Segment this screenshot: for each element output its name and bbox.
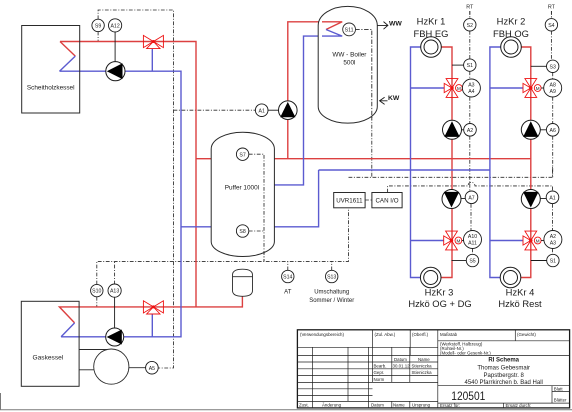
svg-text:Puffer 1000l: Puffer 1000l — [225, 185, 259, 192]
wire S14 stub — [287, 261, 289, 270]
svg-text:S10: S10 — [92, 289, 101, 295]
tank WW-Boiler — [318, 6, 377, 123]
svg-text:(Gewicht): (Gewicht) — [517, 332, 536, 337]
svg-text:HzKr 1: HzKr 1 — [417, 16, 446, 27]
svg-text:Stieniczka: Stieniczka — [412, 370, 433, 375]
wire red circuit 1+3 riser — [441, 47, 452, 278]
svg-text:Gaskessel: Gaskessel — [33, 354, 64, 361]
wire branch to A1 — [174, 109, 256, 111]
wire horizontal 1 UVR to column2 — [349, 166, 553, 177]
svg-text:FBH EG: FBH EG — [414, 28, 449, 39]
svg-text:(Zul. Abw.): (Zul. Abw.) — [375, 332, 396, 337]
wire blue valve branch hzkr4 — [490, 240, 523, 242]
arrow KW — [380, 97, 388, 104]
controller UVR1611 box — [334, 193, 365, 208]
wire S11 line into controller — [355, 29, 372, 177]
frame bottom line — [0, 409, 572, 411]
svg-text:Umschaltung: Umschaltung — [314, 290, 349, 296]
actuator A2 A3 — [544, 231, 562, 249]
svg-text:S4: S4 — [548, 23, 554, 29]
svg-text:(Modell- oder Gesenk-Nr.): (Modell- oder Gesenk-Nr.) — [440, 350, 491, 355]
svg-text:A13: A13 — [110, 289, 119, 295]
svg-text:Zust.: Zust. — [299, 402, 309, 407]
svg-text:A1: A1 — [549, 195, 555, 201]
svg-text:Ursprung: Ursprung — [412, 402, 431, 407]
svg-text:30.01.12: 30.01.12 — [393, 363, 411, 368]
radiator HzKr2 — [501, 37, 522, 58]
svg-text:AT: AT — [284, 290, 292, 296]
actuator A13 — [114, 297, 116, 328]
svg-text:Blatt: Blatt — [554, 386, 564, 391]
wire RT stubs — [470, 11, 552, 19]
svg-text:Änderung: Änderung — [322, 402, 342, 407]
svg-text:Ersatz für:: Ersatz für: — [440, 403, 460, 408]
svg-text:S7: S7 — [239, 152, 245, 158]
svg-text:A10: A10 — [468, 234, 477, 240]
wire blue valve branch hzkr1 — [411, 87, 445, 89]
svg-text:WW - Boiler: WW - Boiler — [332, 52, 367, 59]
wire blue return header — [319, 169, 490, 171]
wire blue circuit 2+4 drop — [490, 47, 501, 278]
sensor S11 — [343, 23, 356, 36]
svg-text:Scheitholzkessel: Scheitholzkessel — [27, 85, 75, 92]
svg-text:RT: RT — [548, 5, 556, 11]
pump HzKr1 (up) — [443, 120, 464, 139]
svg-text:M: M — [536, 239, 540, 244]
circuit 4 column: A1 A2/A3 S1 — [546, 191, 559, 204]
svg-text:A12: A12 — [110, 24, 119, 30]
pipe red network — [59, 22, 531, 323]
sensor S14 — [282, 270, 294, 282]
svg-text:A7: A7 — [468, 195, 474, 201]
svg-text:A1: A1 — [259, 108, 265, 114]
boiler Gaskessel box — [21, 301, 79, 386]
wire red to puffer left — [196, 158, 211, 160]
svg-text:Hzkö Rest: Hzkö Rest — [498, 298, 542, 309]
svg-text:A9: A9 — [550, 89, 556, 95]
wire horizontal 2 CAN to A1 with hop — [388, 182, 553, 192]
actuator A2 — [464, 124, 477, 137]
pump scheitholzkessel (right) — [106, 62, 125, 81]
svg-text:Norm: Norm — [374, 377, 385, 382]
wire S9 stub down — [97, 32, 99, 42]
pump HzKr3 (down) — [442, 190, 465, 209]
wire blue WW boiler return — [274, 30, 342, 185]
sensor S3 — [531, 65, 547, 67]
wire blue valve branch hzkr3 — [411, 240, 445, 242]
valve mixing HzKr4 with motor M — [523, 231, 544, 250]
svg-text:A3: A3 — [468, 83, 474, 89]
wire blue puffer left inlet — [181, 226, 211, 228]
actuator A5 burner — [146, 361, 159, 374]
titleblock — [297, 330, 569, 408]
wire blue valve branch hzkr2 — [490, 87, 523, 89]
wire blue gaskessel HX diagonal — [61, 323, 75, 337]
frame left bottom stub — [0, 393, 2, 410]
svg-text:Name: Name — [418, 357, 430, 362]
wire red expansion vessel stub — [196, 296, 242, 307]
wire blue circuits return to puffer — [274, 170, 318, 227]
wire main bus y=261.4 — [97, 193, 349, 285]
wire WW HX inside tank (redrawn over tank) — [322, 22, 342, 30]
svg-text:(Verwendungsbereich): (Verwendungsbereich) — [300, 332, 344, 337]
svg-text:120501: 120501 — [451, 391, 485, 403]
svg-text:RI Schema: RI Schema — [488, 357, 519, 363]
sensor S1 hzkr1 — [452, 64, 464, 66]
svg-text:500l: 500l — [343, 60, 355, 67]
valve mixing scheitholzkessel — [143, 35, 163, 48]
svg-text:Stieniczka: Stieniczka — [412, 363, 433, 368]
wire top bus S9 to controller drop — [98, 10, 173, 368]
wire red scheitholz supply + main vertical — [60, 42, 196, 307]
burner of Gaskessel — [79, 349, 146, 384]
valve mixing HzKr1 with motor M — [444, 79, 464, 98]
wire puffer sensor dashes inside tank — [249, 154, 264, 261]
sensor S10 — [91, 284, 103, 296]
svg-text:A2: A2 — [467, 128, 473, 134]
valve mixing HzKr3 with motor M — [444, 231, 464, 250]
svg-text:S11: S11 — [345, 28, 354, 34]
wire UVR-CAN link — [365, 199, 372, 201]
valve mixing gaskessel — [143, 301, 163, 314]
svg-text:WW: WW — [389, 20, 402, 27]
pipe blue network — [60, 30, 523, 337]
svg-text:Datum: Datum — [371, 402, 384, 407]
actuator A12 — [114, 32, 116, 62]
wire sensor column 1 top — [470, 11, 473, 254]
svg-text:A4: A4 — [468, 89, 474, 95]
svg-text:Hzkö OG + DG: Hzkö OG + DG — [408, 298, 471, 309]
svg-text:4540 Pfarrkirchen b. Bad Hall: 4540 Pfarrkirchen b. Bad Hall — [465, 380, 543, 386]
svg-text:A2: A2 — [550, 234, 556, 240]
svg-text:S14: S14 — [283, 275, 292, 281]
wire S10 stub down — [96, 297, 98, 307]
sensor S9 — [92, 19, 104, 31]
wire red scheitholz HX diagonal — [60, 42, 75, 57]
wire red circuit 2+4 riser — [521, 47, 531, 278]
svg-text:Datum: Datum — [394, 357, 407, 362]
svg-text:UVR1611: UVR1611 — [336, 198, 363, 205]
svg-text:Gepr.: Gepr. — [374, 370, 385, 375]
svg-text:HzKr 4: HzKr 4 — [506, 286, 535, 297]
boiler Scheitholzkessel box — [22, 26, 80, 114]
svg-text:Bearb.: Bearb. — [374, 363, 387, 368]
svg-text:CAN I/O: CAN I/O — [375, 198, 398, 205]
radiator HzKr3 — [420, 267, 441, 288]
pump HzKr4 (down) — [521, 190, 546, 209]
arrow WW — [377, 22, 388, 30]
svg-text:KW: KW — [388, 95, 400, 102]
wire blue scheitholz return main vertical to gaskessel — [60, 71, 182, 337]
sensor S5 — [452, 260, 467, 262]
wire red supply header — [274, 158, 531, 160]
svg-text:S8: S8 — [239, 229, 245, 235]
wire blue scheitholz HX diagonal — [60, 56, 76, 71]
radiator HzKr1 — [421, 37, 442, 58]
svg-text:HzKr 2: HzKr 2 — [497, 16, 526, 27]
svg-text:A3: A3 — [550, 241, 556, 247]
svg-text:Papstbergstr. 8: Papstbergstr. 8 — [484, 373, 525, 379]
svg-text:Maßstab: Maßstab — [440, 332, 458, 337]
actuator A6 — [546, 124, 559, 137]
svg-text:S13: S13 — [327, 275, 336, 281]
svg-text:RT: RT — [466, 5, 474, 11]
actuator A1 WW pump — [268, 109, 279, 111]
svg-text:A6: A6 — [550, 128, 556, 134]
svg-text:M: M — [536, 86, 540, 91]
svg-text:(Oberfl.): (Oberfl.) — [412, 332, 429, 337]
actuator A8 A9 — [544, 79, 562, 97]
wire blue valve stub top — [151, 49, 153, 72]
svg-text:Name: Name — [393, 402, 405, 407]
wire blue circuit 1+3 drop — [411, 47, 421, 278]
svg-text:S1: S1 — [467, 63, 473, 69]
svg-text:Ersatz durch:: Ersatz durch: — [506, 403, 532, 408]
svg-text:M: M — [457, 86, 461, 91]
svg-text:Thomas Gebesmair: Thomas Gebesmair — [477, 365, 530, 371]
sensor S1 hzkr4 — [531, 260, 547, 262]
sensor S7 — [236, 148, 248, 160]
wire red gaskessel supply — [59, 307, 196, 323]
wire sensor column 2 top — [551, 11, 552, 254]
radiator HzKr4 — [500, 267, 521, 288]
svg-text:Blätter: Blätter — [554, 398, 567, 403]
pump WW charge (up) — [279, 101, 298, 120]
wire S11 dash inside tank — [355, 29, 372, 120]
sensor S8 — [236, 225, 248, 237]
svg-text:FBH OG: FBH OG — [493, 28, 529, 39]
svg-text:S9: S9 — [95, 24, 101, 30]
svg-text:Sommer / Winter: Sommer / Winter — [309, 298, 354, 304]
pump HzKr2 (up) — [521, 120, 546, 139]
actuator A3 A4 — [462, 79, 480, 97]
wire S13 stub — [331, 261, 333, 270]
actuator A10 A11 — [464, 231, 482, 249]
expansion vessel — [233, 269, 253, 296]
svg-text:S3: S3 — [550, 64, 556, 70]
svg-text:S2: S2 — [467, 23, 473, 29]
svg-text:S5: S5 — [469, 259, 475, 265]
wire red WW charge riser — [288, 22, 342, 159]
wire blue valve stub gas — [151, 315, 153, 337]
wire puffer sensors S7 S8 — [249, 154, 264, 261]
controller CAN I/O box — [372, 193, 402, 208]
wire A13 stub — [114, 261, 116, 284]
svg-text:S1: S1 — [550, 259, 556, 265]
sensor S13 — [326, 270, 338, 282]
svg-text:A8: A8 — [550, 83, 556, 89]
svg-text:M: M — [456, 239, 460, 244]
svg-text:A5: A5 — [149, 366, 155, 372]
tank Puffer 1000l — [211, 132, 274, 256]
pump gaskessel (left) — [106, 328, 124, 346]
svg-text:A11: A11 — [468, 241, 477, 247]
circuit 3 column: A7 A10/A11 S5 — [465, 191, 478, 204]
svg-text:HzKr 3: HzKr 3 — [425, 286, 454, 297]
valve mixing HzKr2 with motor M — [523, 79, 544, 98]
